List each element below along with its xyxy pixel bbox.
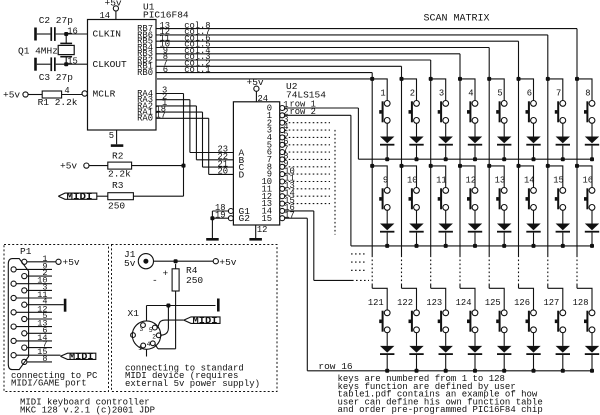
svg-text:250: 250 — [108, 201, 125, 212]
P1 pin 7 — [22, 340, 52, 351]
U2 output 8 bubble and pin 9 — [267, 159, 289, 172]
svg-text:SCAN MATRIX: SCAN MATRIX — [424, 13, 490, 24]
ground at G1/G2 — [206, 238, 219, 241]
svg-text:16: 16 — [67, 26, 78, 36]
U2 output 3 bubble and pin 4 — [267, 122, 289, 136]
U1 pin label RA0 — [137, 114, 153, 124]
svg-text:MIDI: MIDI — [193, 316, 218, 326]
label connecting to PC MIDI/GAME port — [11, 371, 98, 389]
key 125 switch S125 — [485, 288, 512, 373]
svg-text:RB0: RB0 — [137, 68, 153, 78]
+5V supply at R2 — [60, 161, 89, 172]
node column 1 row2 junction — [370, 164, 374, 168]
svg-text:16: 16 — [582, 176, 593, 186]
dotted wire U2 output 11 — [285, 188, 330, 190]
note keys numbering text — [338, 374, 543, 415]
svg-text:122: 122 — [397, 298, 413, 308]
P1 pin 9 — [11, 261, 52, 272]
svg-text:250: 250 — [186, 275, 203, 286]
svg-text:8: 8 — [585, 89, 590, 99]
svg-text:6: 6 — [527, 89, 532, 99]
P1 pin 10 — [11, 276, 52, 287]
svg-text:128: 128 — [573, 298, 589, 308]
svg-text:X1: X1 — [128, 308, 140, 319]
key 4 switch S4 — [460, 79, 482, 161]
MIDI net flag at X1 — [184, 316, 220, 326]
wire RB3 col.4 — [156, 46, 460, 79]
column 6 vertical wire — [518, 79, 520, 288]
wire RB7 col.8 — [156, 21, 577, 79]
svg-text:D: D — [239, 169, 245, 180]
svg-text:PIC16F84: PIC16F84 — [143, 10, 189, 21]
key 123 switch S123 — [426, 288, 453, 373]
svg-text:6: 6 — [163, 65, 168, 75]
svg-text:11: 11 — [37, 290, 47, 300]
svg-text:2: 2 — [410, 89, 415, 99]
column 2 vertical wire — [401, 79, 403, 288]
node column 1 row1 junction — [370, 77, 374, 81]
svg-text:C3 27p: C3 27p — [39, 72, 74, 83]
row 2 bus wire — [351, 245, 592, 247]
column 4 vertical wire — [459, 79, 461, 288]
column 7 vertical wire — [547, 79, 549, 288]
svg-text:+5v: +5v — [219, 257, 236, 268]
label SCAN MATRIX — [424, 13, 490, 24]
svg-text:CLKOUT: CLKOUT — [93, 59, 128, 70]
ground at U2 pin 12 — [249, 238, 262, 241]
U2 input label A — [239, 148, 245, 159]
wire R4 to X1 pin 4 — [155, 345, 176, 349]
key 126 switch S126 — [514, 288, 541, 373]
U1 part value PIC16F84 — [143, 10, 189, 21]
wire RB6 col.7 — [156, 27, 548, 79]
svg-text:7: 7 — [556, 89, 561, 99]
node column 3 row1 junction — [429, 77, 433, 81]
svg-text:MIDI/GAME port: MIDI/GAME port — [11, 379, 87, 389]
svg-text:14: 14 — [524, 176, 535, 186]
U1 pin label RB1 — [137, 62, 153, 72]
svg-text:9: 9 — [383, 176, 388, 186]
wire lower horizontal to col.1 junction — [157, 78, 372, 80]
svg-text:4: 4 — [468, 89, 473, 99]
svg-text:+5v: +5v — [63, 257, 80, 268]
svg-text:15: 15 — [67, 57, 78, 67]
wire RB1 col.2 — [156, 59, 402, 79]
svg-text:R1 2.2k: R1 2.2k — [38, 97, 78, 108]
U2 part value 74LS154 — [286, 90, 326, 101]
svg-text:Q1 4MHz: Q1 4MHz — [18, 45, 58, 56]
node column 5 row1 junction — [487, 77, 491, 81]
node column 2 row1 junction — [400, 77, 404, 81]
svg-text:12: 12 — [37, 304, 47, 314]
U1 pin label MCLR with bubble — [82, 89, 116, 100]
ground at P1 pin 4 — [64, 299, 67, 312]
dotted wire U2 output 9 — [285, 173, 330, 175]
column 1 vertical wire — [371, 79, 373, 288]
U2 74LS154 box — [233, 102, 279, 225]
svg-text:external 5v power supply): external 5v power supply) — [125, 379, 260, 389]
key 16 switch S16 — [577, 166, 599, 248]
U2 input label B — [239, 155, 245, 166]
svg-text:MIDI: MIDI — [69, 352, 94, 362]
svg-text:1: 1 — [380, 89, 385, 99]
resistor R3 250 — [97, 180, 184, 211]
node column 2 row2 junction — [400, 164, 404, 168]
wire RA0 to U2 D — [155, 111, 233, 177]
U2 output 12 bubble and pin 14 — [261, 188, 294, 201]
P1 pin 3 — [22, 282, 52, 293]
wire RA1 to U2 C — [155, 104, 233, 169]
U2 input label D — [239, 169, 245, 180]
svg-text:3: 3 — [140, 326, 144, 333]
svg-text:5: 5 — [109, 131, 114, 141]
svg-text:2: 2 — [152, 334, 156, 341]
dashed enclosure MIDI device power — [112, 245, 278, 392]
dotted wire U2 output 7 — [285, 158, 330, 160]
svg-text:4: 4 — [64, 86, 69, 96]
P1 pin 5 — [22, 311, 52, 322]
svg-text:17: 17 — [155, 111, 166, 121]
P1 pin 1 — [22, 254, 56, 265]
svg-text:1: 1 — [138, 345, 142, 352]
key 13 switch S13 — [489, 166, 511, 248]
U2 output 1 bubble and pin 2 — [267, 108, 289, 121]
capacitor C3 27p — [34, 57, 87, 83]
P1 pin 15 — [11, 347, 60, 358]
node column 6 row1 junction — [517, 77, 521, 81]
dashed enclosure PC MIDI/GAME port — [4, 245, 109, 392]
key 121 switch S121 — [368, 288, 395, 373]
U2 output 5 bubble and pin 6 — [267, 137, 289, 150]
U1 pin label RB7 — [137, 24, 153, 34]
dotted row-bus continuation vertical — [334, 130, 336, 235]
column 5 vertical wire — [488, 79, 490, 288]
node R2/RA4 junction — [182, 164, 186, 168]
svg-text:19: 19 — [215, 210, 226, 220]
wire MIDI flag to X1 pin 5 — [158, 320, 184, 328]
svg-text:121: 121 — [368, 298, 384, 308]
U1 reference designator U1 — [143, 1, 155, 12]
dotted wire U2 output 10 — [285, 181, 330, 183]
key 5 switch S5 — [489, 79, 511, 161]
svg-text:P1: P1 — [20, 246, 32, 257]
svg-text:+5v: +5v — [3, 90, 20, 101]
dotted wire U2 output 4 — [285, 136, 330, 138]
svg-text:G2: G2 — [239, 213, 251, 224]
U1 pin label RA2 — [137, 101, 153, 111]
wire ground junction to X1 pin 2 — [161, 308, 168, 336]
connector X1 MIDI DIN-5 — [128, 306, 162, 357]
U2 enable G1 pin 18 — [212, 203, 250, 217]
key 128 switch S128 — [573, 288, 600, 373]
svg-text:MKC 128 v.2.1 (c)2001 JDP: MKC 128 v.2.1 (c)2001 JDP — [20, 405, 155, 415]
node column 8 row1 junction — [575, 77, 579, 81]
wire RA3 to U2 A — [156, 92, 233, 155]
column 8 vertical wire — [576, 79, 578, 288]
svg-text:126: 126 — [514, 298, 530, 308]
P1 pin 14 — [11, 333, 52, 344]
U1 pin label RA4 — [137, 89, 153, 99]
dotted wire U2 output 8 — [285, 166, 330, 168]
svg-text:+5v: +5v — [60, 161, 77, 172]
U1 pin label RA3 — [137, 95, 153, 105]
U2 output 2 bubble and pin 3 — [267, 115, 289, 128]
svg-text:20: 20 — [217, 167, 228, 177]
key 3 switch S3 — [431, 79, 453, 161]
dotted wire U2 output 2 — [285, 122, 330, 124]
key 10 switch S10 — [402, 166, 424, 248]
svg-text:12: 12 — [257, 225, 268, 235]
MIDI net flag at R3 — [58, 192, 97, 202]
U1 pin 5 ground wire — [109, 130, 117, 144]
key 2 switch S2 — [402, 79, 424, 161]
wire U2 output 14 row 15 — [285, 211, 369, 281]
U2 reference designator U2 — [286, 81, 298, 92]
U2 output 7 bubble and pin 8 — [267, 152, 289, 165]
U1 pin label RB5 — [137, 37, 153, 47]
P1 pin 8 — [22, 354, 52, 365]
key 127 switch S127 — [543, 288, 570, 373]
key 11 switch S11 — [431, 166, 453, 248]
wire RA2 to U2 B — [156, 98, 233, 162]
P1 pin 12 — [11, 304, 52, 315]
svg-text:127: 127 — [543, 298, 559, 308]
svg-text:MCLR: MCLR — [93, 89, 116, 100]
U1 PIC16F84 box — [88, 20, 157, 131]
wire G1-G2 tie to ground — [210, 211, 214, 238]
node column 4 row1 junction — [458, 77, 462, 81]
svg-text:12: 12 — [465, 176, 476, 186]
key 8 switch S8 — [577, 79, 599, 161]
svg-text:14: 14 — [37, 333, 47, 343]
svg-text:10: 10 — [37, 276, 47, 286]
svg-text:5: 5 — [497, 89, 502, 99]
svg-text:3: 3 — [439, 89, 444, 99]
svg-text:C2 27p: C2 27p — [39, 15, 74, 26]
node column 7 row1 junction — [546, 77, 550, 81]
node J1/R4 junction — [174, 259, 178, 263]
wire U2 output 15 row 16 — [285, 218, 308, 371]
node column 4 row2 junction — [458, 164, 462, 168]
svg-text:125: 125 — [485, 298, 501, 308]
U1 pin label CLKIN — [93, 29, 122, 40]
svg-text:RA0: RA0 — [137, 114, 153, 124]
node column 6 row2 junction — [517, 164, 521, 168]
svg-text:9: 9 — [42, 261, 47, 271]
P1 pin 11 — [11, 290, 52, 301]
svg-text:R2: R2 — [112, 151, 124, 162]
svg-text:and order pre-programmed PIC16: and order pre-programmed PIC16F84 chip — [338, 405, 543, 415]
+5V supply at U1 pin 14 — [105, 0, 122, 11]
svg-text:+: + — [163, 268, 169, 279]
svg-text:R3: R3 — [112, 180, 124, 191]
U1 pin label RB0 — [137, 68, 153, 78]
U1 pin label CLKOUT — [93, 59, 128, 70]
crystal Q1 4MHz — [18, 34, 74, 64]
label connecting to standard MIDI device — [125, 363, 260, 389]
U2 output 13 bubble and pin 15 — [261, 196, 294, 209]
U2 output 11 bubble and pin 13 — [261, 181, 294, 194]
wire RA4 to R2/R3 net — [156, 86, 184, 197]
key 122 switch S122 — [397, 288, 424, 373]
U2 input label C — [239, 162, 245, 173]
U1 pin label RB4 — [137, 43, 153, 53]
wire U2 output 1 row 2 — [285, 107, 351, 246]
ground at U1 pin 5 — [111, 144, 124, 147]
wire RB0 col.1 — [156, 65, 372, 79]
node CLKIN junction — [64, 26, 78, 36]
ground bar at J1 box — [217, 299, 220, 312]
U2 pin 12 ground wire — [256, 225, 268, 238]
dotted wire U2 output 13 — [285, 203, 330, 205]
U2 output 0 bubble and pin 1 — [267, 100, 289, 113]
dotted row continuation stubs — [351, 254, 367, 270]
node column 7 row2 junction — [546, 164, 550, 168]
wire RB5 col.6 — [156, 33, 519, 79]
U1 pin label RA1 — [137, 108, 153, 118]
node column 8 row2 junction — [575, 164, 579, 168]
+5V supply at J1 — [213, 257, 237, 268]
U2 output 10 bubble and pin 11 — [261, 174, 294, 187]
key 6 switch S6 — [519, 79, 541, 161]
key 9 switch S9 — [372, 166, 394, 248]
power jack J1 5v — [124, 249, 153, 269]
svg-text:row 16: row 16 — [318, 361, 353, 372]
connector P1 DB15 outline — [8, 246, 31, 369]
+5V supply at R1 — [3, 90, 28, 101]
svg-text:15: 15 — [553, 176, 564, 186]
svg-text:17: 17 — [284, 210, 295, 220]
wire J1 to +5V — [154, 260, 214, 262]
svg-text:10: 10 — [407, 176, 418, 186]
node ground junction — [166, 304, 170, 308]
svg-text:13: 13 — [495, 176, 506, 186]
dotted wire U2 output 6 — [285, 151, 330, 153]
+5V supply at P1 pin 1 — [56, 257, 80, 268]
resistor R2 2.2k — [89, 151, 184, 180]
U2 output 6 bubble and pin 7 — [267, 144, 289, 157]
node column 5 row2 junction — [487, 164, 491, 168]
wire U2 output 0 row 1 — [285, 100, 359, 160]
svg-text:row 2: row 2 — [290, 107, 316, 117]
key 14 switch S14 — [519, 166, 541, 248]
svg-text:-: - — [152, 275, 158, 286]
U1 pin label RB6 — [137, 30, 153, 40]
U2 output 9 bubble and pin 10 — [267, 166, 295, 179]
wire +5V to U2 pin 24 — [256, 91, 268, 104]
svg-text:15: 15 — [37, 347, 47, 357]
P1 pin 6 — [22, 325, 52, 336]
dotted wire U2 output 12 — [285, 195, 330, 197]
+5V supply at U2 pin 24 — [247, 77, 264, 91]
svg-text:124: 124 — [456, 298, 472, 308]
U2 enable G2 pin 19 — [212, 210, 250, 224]
svg-text:14: 14 — [99, 11, 110, 21]
wire X1 shield to ground — [147, 305, 216, 307]
key 7 switch S7 — [548, 79, 570, 161]
svg-text:15: 15 — [261, 214, 272, 224]
node CLKOUT junction — [64, 57, 78, 67]
svg-text:4: 4 — [147, 341, 151, 348]
row 1 bus wire — [358, 158, 592, 160]
title MIDI keyboard controller — [20, 398, 150, 408]
svg-text:123: 123 — [426, 298, 442, 308]
wire RB2 col.3 — [156, 52, 431, 79]
key 1 switch S1 — [372, 79, 394, 161]
capacitor C2 27p — [34, 15, 87, 41]
U2 output 14 bubble and pin 16 — [261, 203, 294, 216]
key 12 switch S12 — [460, 166, 482, 248]
resistor R4 250 — [172, 264, 203, 349]
svg-text:24: 24 — [257, 94, 268, 104]
U2 output 15 bubble and pin 17 — [261, 210, 294, 223]
U1 pin label RB2 — [137, 55, 153, 65]
svg-text:CLKIN: CLKIN — [93, 29, 122, 40]
dotted wire U2 output 5 — [285, 144, 330, 146]
wire +5V to U1 pin 14 — [99, 11, 115, 21]
row 16 bus wire — [307, 361, 592, 372]
svg-text:5v: 5v — [124, 258, 136, 269]
polarity labels - + — [152, 268, 169, 286]
P1 pin 13 — [11, 319, 52, 330]
svg-text:MIDI: MIDI — [67, 192, 93, 202]
dotted wire U2 output 3 — [285, 129, 330, 131]
U1 pin label RB3 — [137, 49, 153, 59]
node column 3 row2 junction — [429, 164, 433, 168]
key 15 switch S15 — [548, 166, 570, 248]
column 3 vertical wire — [430, 79, 432, 288]
svg-text:13: 13 — [37, 319, 47, 329]
wire RB4 col.5 — [156, 40, 489, 79]
title MKC 128 v.2.1 (c)2001 JDP — [20, 405, 155, 415]
resistor R1 2.2k — [28, 86, 82, 108]
key 124 switch S124 — [456, 288, 483, 373]
U2 output 4 bubble and pin 5 — [267, 130, 289, 143]
MIDI net flag at P1 pin 15 — [60, 352, 95, 362]
svg-text:2.2k: 2.2k — [108, 169, 131, 180]
svg-text:11: 11 — [436, 176, 447, 186]
P1 pin 2 — [22, 268, 52, 279]
svg-text:col.1: col.1 — [184, 65, 210, 75]
P1 pin 4 — [22, 297, 64, 308]
